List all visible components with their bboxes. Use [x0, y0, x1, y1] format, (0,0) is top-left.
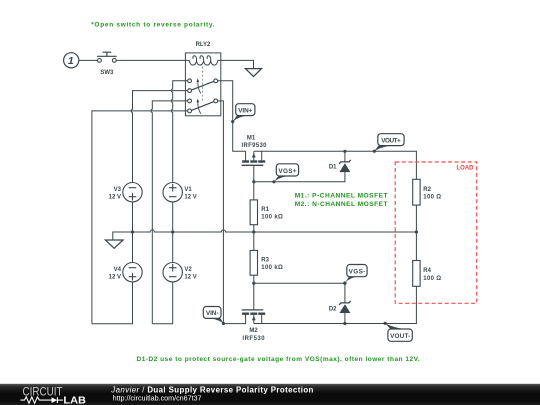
wire relay contact3 left down to U2 [151, 101, 188, 324]
flag VIN- [203, 307, 225, 326]
resistor R2 [413, 179, 420, 205]
wire V3 bottom to rail [132, 202, 134, 232]
junction V1-V2 ground rail [171, 230, 174, 233]
svg-text:IRF530: IRF530 [242, 336, 265, 342]
LOAD box red dashed [395, 162, 477, 303]
wire R1 top lead [253, 182, 255, 200]
source V3 [123, 183, 142, 202]
svg-text:100 kΩ: 100 kΩ [261, 265, 283, 271]
wire D2 anode to bottom rail [344, 313, 346, 324]
node VGS- junction M2 gate R3 [252, 282, 255, 285]
wire relay contact4 left down far-left [92, 111, 188, 324]
wire bottom rail M2 drain to R4 [254, 286, 417, 323]
junction D1 VOUT+ rail [343, 150, 346, 153]
junction D2 VGS- wire [343, 282, 346, 285]
source V4 [123, 263, 142, 282]
resistor R4 [413, 261, 420, 287]
svg-text:VGS-: VGS- [349, 269, 366, 276]
relay pole2 arrow [198, 102, 201, 114]
resistor R1 [250, 200, 257, 225]
flag VOUT+ [373, 134, 404, 153]
wire M1 gate lead [253, 165, 255, 182]
svg-text:R4: R4 [423, 268, 431, 274]
junction V3-V4 ground rail [131, 230, 134, 233]
relay contact terminals [188, 79, 218, 113]
wire U2 bottom V2 to contact3 [152, 282, 172, 324]
wire V1 bottom to rail [172, 202, 174, 232]
junction D2 VOUT- rail [343, 322, 346, 325]
svg-text:100 kΩ: 100 kΩ [261, 215, 283, 221]
wire VGS- node to D2 cathode [254, 283, 345, 303]
svg-text:R2: R2 [423, 187, 431, 193]
svg-text:SW3: SW3 [100, 70, 114, 76]
relay RLY2 box [185, 53, 220, 116]
svg-text:CIRCUIT: CIRCUIT [23, 386, 63, 398]
svg-text:VOUT-: VOUT- [390, 333, 410, 340]
wire bottom rail VIN- to M2 source [223, 315, 245, 324]
wire R3 bottom to VGS- node [253, 275, 255, 283]
svg-text:VIN+: VIN+ [238, 108, 252, 115]
svg-text:V3: V3 [114, 187, 122, 193]
wire node1 to SW3 [79, 59, 98, 61]
transistor M1 P-channel MOSFET IRF9530 [242, 151, 266, 165]
diode D2 zener [339, 304, 350, 313]
svg-text:IRF9530: IRF9530 [242, 143, 268, 149]
svg-text:V4: V4 [114, 267, 122, 273]
svg-text:12 V: 12 V [184, 274, 196, 280]
flag VGS+ [272, 164, 298, 184]
wire relay right contact1 to VIN+ rail [218, 81, 246, 161]
wire VGS+ node to D1 [254, 172, 345, 182]
svg-text:VOUT+: VOUT+ [381, 137, 401, 144]
wire R2 bottom to rail to R4 top [415, 205, 417, 260]
source V1 [163, 183, 182, 202]
logo squiggle [21, 397, 52, 403]
wire relay contact1 left down to V1 top [171, 81, 187, 183]
relay pole1 arrow [198, 82, 201, 94]
svg-text:VIN-: VIN- [206, 310, 219, 317]
junction R2-R4 ground rail [415, 230, 418, 233]
svg-text:1: 1 [68, 55, 74, 67]
svg-text:M2.: N-CHANNEL MOSFET: M2.: N-CHANNEL MOSFET [295, 201, 388, 208]
svg-text:D2: D2 [329, 307, 337, 313]
ground top right [245, 69, 261, 77]
svg-text:R3: R3 [261, 257, 269, 263]
relay coil [189, 56, 217, 65]
svg-text:VGS+: VGS+ [278, 168, 297, 175]
svg-text:D1: D1 [329, 165, 337, 171]
svg-text:M2: M2 [249, 328, 258, 334]
ground mid left [105, 240, 123, 248]
wire relay right contact2 down VIN- [218, 101, 224, 324]
svg-text:*Open switch to reverse polari: *Open switch to reverse polarity. [91, 21, 214, 28]
svg-text:100 Ω: 100 Ω [423, 195, 441, 201]
wire mid ground rail [113, 230, 417, 240]
wire D1 cathode to rail [344, 151, 346, 162]
flag VIN+ [231, 104, 255, 124]
node flag 1 [64, 53, 79, 68]
switch SW3 [98, 59, 117, 63]
svg-text:12 V: 12 V [109, 274, 121, 280]
resistor R3 [250, 250, 257, 275]
svg-text:M1.: P-CHANNEL MOSFET: M1.: P-CHANNEL MOSFET [295, 192, 388, 199]
wire VOUT+ rail M1 drain to R2 [254, 151, 417, 179]
wire SW3 to relay coil [116, 59, 189, 61]
node VGS+ junction M1 gate R1 [252, 180, 255, 183]
svg-text:http://circuitlab.com/cn67t37: http://circuitlab.com/cn67t37 [113, 394, 202, 403]
svg-text:R1: R1 [261, 207, 269, 213]
svg-text:LOAD: LOAD [457, 166, 475, 172]
wire coil to top ground [218, 60, 254, 68]
relay pole2 arm [191, 102, 214, 111]
svg-text:V2: V2 [184, 267, 192, 273]
wire U1 bottom V4 to contact4 [92, 282, 133, 324]
svg-text:LAB: LAB [63, 396, 86, 405]
svg-text:12 V: 12 V [184, 194, 196, 200]
wire R1 bottom to rail to R3 top [253, 225, 255, 251]
svg-text:RLY2: RLY2 [196, 42, 211, 48]
wire rail to V4 top [132, 232, 134, 263]
svg-text:12 V: 12 V [109, 194, 121, 200]
diode D1 zener [339, 163, 350, 172]
wire M2 gate lead [253, 283, 255, 310]
source V2 [163, 263, 182, 282]
svg-text:M1: M1 [247, 136, 256, 142]
svg-text:100 Ω: 100 Ω [423, 276, 441, 282]
wire rail to V2 top [172, 232, 174, 263]
flag VGS- [343, 265, 367, 285]
wire relay contact2 left down to V3 top [131, 91, 188, 183]
svg-text:V1: V1 [184, 187, 192, 193]
relay pole1 arm [191, 81, 214, 90]
flag VOUT- [384, 322, 413, 342]
relay mechanical dashed link [202, 67, 204, 101]
svg-text:D1-D2 use to protect source-ga: D1-D2 use to protect source-gate voltage… [137, 356, 420, 363]
transistor M2 N-channel MOSFET IRF530 [242, 310, 266, 324]
junction R1-R3 ground rail [252, 230, 255, 233]
